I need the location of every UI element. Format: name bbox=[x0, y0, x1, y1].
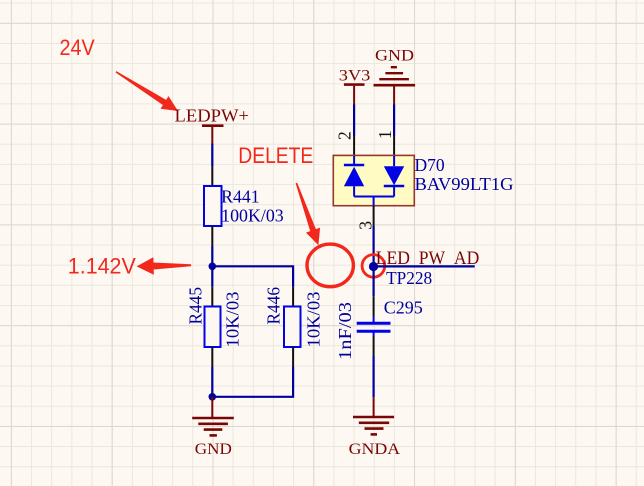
svg-text:R445: R445 bbox=[186, 287, 206, 325]
wire node C to C295 bbox=[373, 266, 375, 296]
svg-text:100K/03: 100K/03 bbox=[221, 206, 284, 226]
pin R441.2 bbox=[211, 226, 213, 246]
wire C295 to GNDA bbox=[373, 355, 375, 397]
svg-text:2: 2 bbox=[334, 131, 354, 140]
ground GND (bottom left) bbox=[192, 397, 234, 458]
wire R441 to node A bbox=[211, 246, 213, 266]
wire GND to D70 pin1 bbox=[393, 104, 395, 135]
annotation arrow DELETE bbox=[296, 183, 321, 246]
svg-text:3V3: 3V3 bbox=[339, 66, 371, 84]
pin C295.2 bbox=[373, 337, 375, 356]
svg-text:GND: GND bbox=[195, 440, 232, 458]
resistor R441 bbox=[204, 186, 284, 226]
svg-text:BAV99LT1G: BAV99LT1G bbox=[415, 174, 514, 194]
svg-text:1.142V: 1.142V bbox=[68, 253, 136, 278]
pin R446.1 bbox=[292, 287, 294, 307]
wire node A to R446 branch bbox=[212, 266, 293, 286]
wire R445 to node B bbox=[211, 367, 213, 397]
svg-text:R441: R441 bbox=[221, 186, 260, 206]
svg-text:24V: 24V bbox=[60, 35, 95, 60]
diode D70 body bbox=[333, 155, 414, 205]
svg-text:C295: C295 bbox=[384, 298, 423, 318]
svg-text:1nF/03: 1nF/03 bbox=[335, 302, 355, 360]
pin D70.1 bbox=[375, 130, 395, 156]
pin D70.3 bbox=[356, 206, 376, 230]
svg-text:1: 1 bbox=[375, 130, 395, 139]
node B junction bbox=[209, 393, 217, 401]
svg-text:10K/03: 10K/03 bbox=[304, 291, 324, 347]
svg-text:D70: D70 bbox=[415, 155, 445, 175]
annotation arrow 1.142V to node A bbox=[137, 257, 192, 275]
wire R446 to node B bbox=[212, 367, 293, 397]
wire 3V3 to D70 pin2 bbox=[353, 104, 355, 135]
svg-text:DELETE: DELETE bbox=[238, 143, 313, 168]
pin R445.1 bbox=[211, 287, 213, 307]
pin R446.2 bbox=[292, 347, 294, 367]
resistor R446 bbox=[263, 287, 323, 348]
node A junction bbox=[209, 263, 217, 271]
annotation ellipse DELETE bbox=[307, 244, 353, 287]
wire node A down bbox=[211, 266, 213, 286]
wire D70 pin3 to node C bbox=[373, 226, 375, 266]
annotation circle on node C bbox=[362, 255, 385, 278]
svg-text:GND: GND bbox=[375, 47, 414, 65]
node C junction bbox=[369, 262, 378, 271]
power port 3V3 bbox=[339, 66, 371, 104]
pin C295.1 bbox=[373, 296, 375, 316]
resistor R445 bbox=[186, 287, 243, 348]
wire node C to LED_PW_AD bbox=[374, 265, 475, 267]
svg-text:TP228: TP228 bbox=[386, 268, 432, 288]
svg-text:GNDA: GNDA bbox=[349, 440, 401, 458]
annotation arrow from 24V to LEDPW+ bbox=[116, 71, 178, 111]
ground GND (top right) bbox=[374, 47, 416, 105]
svg-text:R446: R446 bbox=[263, 287, 283, 325]
ground GNDA bbox=[349, 397, 401, 458]
power port LEDPW+ bbox=[175, 106, 250, 144]
wire LEDPW+ to R441 bbox=[211, 144, 213, 167]
pin D70.2 bbox=[334, 131, 354, 156]
svg-text:10K/03: 10K/03 bbox=[223, 291, 243, 347]
pin R445.2 bbox=[211, 347, 213, 367]
pin R441.1 bbox=[211, 166, 213, 186]
capacitor C295 bbox=[335, 298, 423, 361]
svg-text:LEDPW+: LEDPW+ bbox=[175, 106, 250, 126]
